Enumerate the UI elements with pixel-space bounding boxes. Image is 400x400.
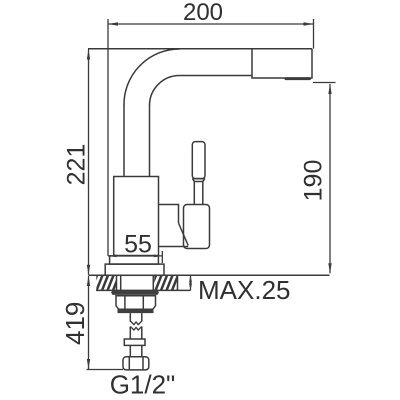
lever rod right edge — [202, 182, 204, 205]
spout outer curve — [124, 49, 180, 106]
arrow 200 left — [108, 22, 118, 25]
union band — [124, 339, 145, 345]
countertop hole left edge — [116, 275, 118, 290]
mounting nut facet left — [124, 296, 126, 310]
cartridge housing — [159, 205, 189, 247]
pipe break chevron lower — [130, 326, 142, 330]
arrow MAX25 top — [189, 275, 192, 282]
base flange lower (escutcheon) — [105, 264, 164, 275]
hose nut outline — [123, 357, 149, 370]
dimension 200 left extension line — [107, 19, 109, 256]
arrow 55 right — [154, 255, 163, 258]
hose nut facet left — [128, 357, 130, 370]
dimension 221 line — [88, 50, 90, 275]
riser pipe left edge — [123, 105, 125, 177]
arrow 419 top — [87, 276, 90, 286]
arrow MAX25 bottom — [189, 283, 192, 290]
spout top line — [88, 48, 312, 50]
arrow 190 top — [328, 84, 331, 94]
shank left edge through counter — [120, 275, 122, 290]
lever taper — [192, 179, 205, 182]
lever rod left edge — [193, 182, 195, 205]
arrow 200 right — [304, 22, 314, 25]
arrow 55 left — [108, 255, 117, 258]
dimension 419 bottom extension line — [87, 369, 124, 371]
dimension 190 top extension line — [313, 82, 336, 84]
mounting nut — [116, 296, 156, 310]
nut base ring (dark) — [118, 309, 154, 313]
svg-text:55: 55 — [124, 231, 152, 259]
dimension 200 right extension line — [313, 19, 315, 49]
locking washer (dark) — [111, 291, 159, 295]
pipe break chevron upper — [130, 321, 142, 325]
countertop right end cap — [177, 275, 179, 290]
threaded tube upper right — [141, 313, 143, 322]
hose nut facet right — [142, 357, 144, 370]
arrow 190 bottom — [328, 263, 331, 273]
threaded tube lower right — [141, 345, 143, 356]
riser pipe right edge — [149, 105, 151, 177]
countertop bottom line — [96, 289, 191, 291]
svg-text:G1/2": G1/2" — [110, 370, 176, 400]
mounting nut facet right — [142, 296, 144, 310]
handle slant line — [179, 223, 189, 246]
svg-text:419: 419 — [60, 302, 90, 345]
threaded tube mid right — [141, 327, 143, 339]
svg-text:221: 221 — [62, 144, 90, 186]
svg-text:200: 200 — [183, 0, 223, 26]
dimension 200 line — [108, 23, 314, 25]
base flange upper — [110, 256, 159, 264]
dimension MAX.25 line — [190, 275, 192, 290]
threaded tube lower left — [129, 345, 131, 356]
countertop hatch left — [91, 275, 125, 290]
shank right edge through counter — [152, 275, 154, 290]
arrow 221 bottom — [87, 265, 90, 275]
arrow 221 top — [87, 50, 90, 60]
dimension 190 line — [329, 84, 331, 273]
svg-text:190: 190 — [300, 160, 328, 202]
countertop top line — [89, 274, 330, 276]
arrow 419 bottom — [87, 359, 90, 369]
dimension 55 line — [108, 255, 162, 257]
dimension 419 line — [88, 276, 90, 369]
threaded tube mid left — [129, 327, 131, 339]
svg-text:MAX.25: MAX.25 — [198, 275, 291, 305]
countertop hatch right — [150, 275, 184, 290]
threaded tube upper left — [129, 313, 131, 322]
aerator outlet lip — [285, 77, 312, 80]
faucet body — [114, 177, 159, 256]
spout inner curve — [150, 76, 180, 106]
dimension 55 right extension line — [161, 251, 163, 263]
handle cap — [184, 205, 210, 249]
aerator housing — [252, 49, 312, 78]
lever grip — [192, 142, 205, 179]
spout underside line — [180, 75, 253, 77]
